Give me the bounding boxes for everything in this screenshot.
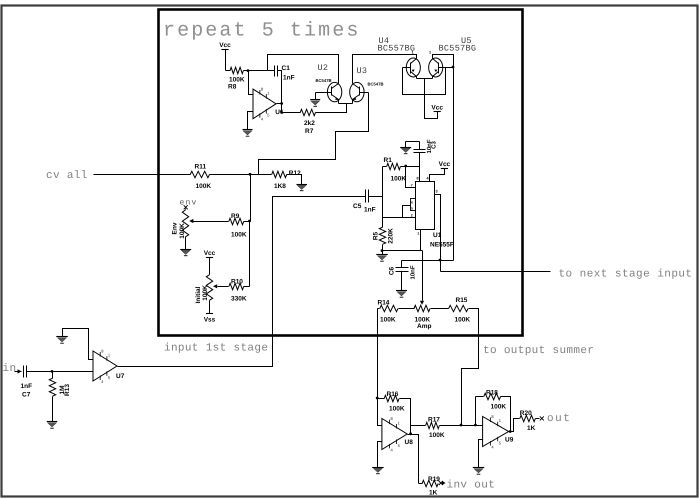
wire U6 output	[277, 104, 301, 113]
wire Vcc to Initial pot	[209, 258, 211, 275]
svg-text:100K: 100K	[455, 317, 471, 324]
svg-text:5: 5	[499, 440, 502, 445]
pot Amp wiper arrow	[420, 301, 424, 305]
svg-text:6: 6	[411, 201, 413, 205]
wire R14 rail down to U8	[378, 309, 382, 426]
node R8/C1 junction	[247, 69, 250, 72]
node U5 base junction	[452, 66, 455, 69]
svg-text:R16: R16	[387, 391, 399, 398]
svg-text:220K: 220K	[388, 228, 395, 244]
svg-text:100K: 100K	[380, 317, 396, 324]
node C1/output junction	[280, 102, 283, 105]
transistor U5	[429, 58, 443, 77]
svg-text:R14: R14	[378, 300, 390, 307]
svg-text:1: 1	[417, 232, 419, 236]
node R18/output	[509, 430, 512, 433]
inv out port	[439, 481, 443, 485]
ground (U6 input)	[243, 130, 253, 137]
svg-text:1K: 1K	[429, 490, 438, 497]
node R18/input	[474, 424, 477, 427]
capacitor C5	[365, 190, 367, 203]
capacitor C7	[23, 366, 25, 378]
wire out node row	[402, 260, 454, 262]
svg-text:8: 8	[417, 177, 419, 181]
svg-text:R8: R8	[228, 84, 237, 91]
wire Vcc to RST pin	[430, 169, 445, 182]
transistor U4	[406, 58, 420, 77]
svg-text:inv out: inv out	[447, 480, 496, 492]
wire TRI pin to rail	[383, 217, 416, 219]
wire C1 right to output	[278, 71, 282, 104]
resistor R20	[520, 415, 536, 421]
svg-text:R9: R9	[231, 213, 240, 220]
svg-text:R13: R13	[64, 384, 71, 396]
wire U3 base to cv node	[259, 93, 369, 175]
svg-text:U2: U2	[318, 63, 329, 73]
svg-text:Env: Env	[172, 222, 179, 234]
svg-text:100K: 100K	[196, 183, 212, 190]
resistor R14	[378, 308, 380, 310]
power Vcc (U4 U5)	[431, 104, 443, 111]
wire C7 to U7	[27, 371, 94, 373]
power Vss	[204, 314, 216, 324]
ground (U7 +input)	[56, 337, 68, 344]
node out/C6	[439, 259, 442, 262]
potentiometer Initial	[206, 275, 212, 301]
svg-text:U9: U9	[505, 437, 514, 444]
resistor R9	[229, 218, 244, 224]
wire node to pin8 rail	[406, 166, 420, 168]
wire emitters to Vcc	[417, 78, 433, 80]
svg-text:100K: 100K	[491, 404, 507, 411]
wire U8 -input ground	[378, 442, 382, 468]
svg-text:C5: C5	[353, 203, 362, 210]
node R1 right	[404, 165, 407, 168]
svg-text:repeat 5 times: repeat 5 times	[163, 20, 360, 43]
svg-text:2k2: 2k2	[304, 120, 315, 127]
ground (C3)	[406, 141, 420, 143]
svg-text:R10: R10	[231, 279, 243, 286]
wire U9 output	[509, 419, 520, 432]
svg-text:BC557BG: BC557BG	[439, 44, 477, 54]
wire R11 to R12	[210, 174, 272, 176]
svg-text:cv all: cv all	[46, 170, 88, 182]
svg-text:C3: C3	[431, 141, 438, 149]
resistor R12	[272, 171, 287, 177]
svg-text:5: 5	[108, 375, 111, 380]
svg-text:330K: 330K	[231, 296, 247, 303]
svg-text:100K: 100K	[179, 223, 186, 239]
op-amp U9	[483, 417, 509, 447]
ground arrow (U2 base)	[315, 93, 317, 100]
wire left vertical rail x382	[382, 167, 384, 228]
resistor R7	[300, 109, 315, 115]
svg-text:out: out	[547, 413, 571, 425]
wire Initial to Vss	[209, 301, 211, 314]
resistor R15	[431, 308, 449, 310]
pot Env wiper arrow	[189, 219, 193, 223]
resistor R1	[383, 166, 387, 168]
svg-text:100K: 100K	[229, 77, 245, 84]
svg-text:R17: R17	[428, 417, 440, 424]
wire emitters join	[339, 103, 353, 105]
wire cv all to R11	[94, 174, 191, 176]
svg-text:R18: R18	[486, 390, 498, 397]
svg-text:BC547B: BC547B	[368, 82, 384, 87]
svg-text:1: 1	[398, 420, 401, 425]
svg-text:Vcc: Vcc	[431, 104, 443, 111]
svg-text:NE555P: NE555P	[430, 242, 455, 249]
svg-text:1: 1	[267, 90, 270, 95]
wire R10 to rail	[244, 286, 250, 288]
wire R15 to summer drop	[462, 309, 479, 426]
capacitor C6	[401, 261, 403, 268]
svg-text:100K: 100K	[429, 432, 445, 439]
resistor R8	[230, 67, 243, 73]
wire U5 collector top to right rail	[433, 55, 454, 261]
potentiometer Env top terminal	[184, 205, 188, 209]
node R16 tap	[376, 397, 379, 400]
wire node down to U6 inverting input	[249, 71, 254, 95]
svg-text:U7: U7	[116, 373, 125, 380]
node cv junction	[249, 173, 252, 176]
wire Vcc to R8	[225, 50, 227, 71]
wire Env to ground	[185, 237, 187, 250]
out port	[540, 416, 544, 420]
svg-text:R7: R7	[305, 128, 314, 135]
node summer join	[460, 424, 463, 427]
wire R12 to ground	[287, 175, 302, 185]
op-amp U6	[253, 89, 276, 119]
svg-text:Vcc: Vcc	[204, 250, 216, 257]
svg-text:2: 2	[411, 213, 413, 217]
node C7/R13	[51, 370, 54, 373]
svg-text:7: 7	[411, 184, 413, 188]
wire pin8 stub	[419, 167, 421, 182]
svg-text:4: 4	[491, 445, 494, 450]
ground (C6)	[396, 291, 407, 298]
svg-text:10nF: 10nF	[410, 265, 417, 279]
wire cv rail down	[250, 175, 252, 222]
power Vcc (555)	[439, 161, 451, 169]
svg-text:BC557BG: BC557BG	[378, 44, 416, 54]
svg-text:to next stage input: to next stage input	[559, 268, 693, 280]
svg-text:Vcc: Vcc	[439, 161, 451, 168]
ground (R12)	[296, 185, 307, 191]
power Vcc (Initial)	[204, 250, 216, 257]
wire U6 noninverting input to ground	[248, 112, 254, 130]
op-amp U8	[382, 419, 407, 450]
svg-text:Amp: Amp	[417, 323, 431, 330]
555 left pin box	[411, 199, 416, 211]
capacitor C1	[274, 66, 276, 77]
wire GND pin run	[383, 250, 423, 252]
resistor R18	[476, 396, 484, 398]
repeat-5-times box	[159, 10, 523, 336]
svg-text:1: 1	[429, 51, 431, 55]
svg-text:5: 5	[267, 113, 270, 118]
svg-text:Vss: Vss	[204, 316, 216, 323]
svg-text:100K: 100K	[389, 406, 405, 413]
svg-text:8: 8	[491, 414, 494, 419]
wire U3 collector up	[353, 55, 417, 84]
node R5 bottom	[381, 249, 384, 252]
svg-text:3: 3	[436, 190, 438, 194]
svg-text:U3: U3	[357, 66, 368, 76]
resistor R10	[229, 283, 244, 289]
ground (Env)	[180, 250, 191, 256]
svg-text:5: 5	[398, 443, 401, 448]
input port arrow	[15, 371, 22, 373]
svg-text:1K8: 1K8	[274, 183, 286, 190]
svg-text:R11: R11	[195, 164, 207, 171]
resistor R5	[379, 227, 385, 244]
wire R18 left down	[475, 397, 477, 426]
potentiometer Env	[182, 210, 188, 237]
wire U7 output to C5 line	[118, 197, 366, 367]
svg-text:C6: C6	[389, 266, 396, 275]
wire ground to U7 input	[63, 329, 94, 360]
svg-text:8: 8	[391, 416, 394, 421]
svg-text:U8: U8	[405, 439, 414, 446]
wire R7 to emitters	[316, 104, 347, 113]
op-amp U7	[93, 351, 117, 381]
svg-text:1: 1	[108, 353, 111, 358]
svg-text:Initial: Initial	[195, 286, 202, 303]
svg-text:1nF: 1nF	[21, 383, 33, 390]
node R16/output	[409, 432, 412, 435]
power Vcc (R8)	[219, 42, 231, 50]
potentiometer Amp	[414, 305, 430, 311]
resistor R19	[419, 483, 423, 485]
svg-text:8: 8	[101, 348, 104, 353]
resistor R11	[190, 171, 209, 177]
svg-text:C1: C1	[282, 65, 291, 72]
svg-text:R12: R12	[289, 170, 301, 177]
wire Amp wiper up	[422, 251, 424, 301]
svg-text:4: 4	[261, 117, 264, 122]
svg-text:R15: R15	[456, 297, 468, 304]
svg-text:in: in	[3, 363, 17, 375]
svg-text:R1: R1	[384, 157, 393, 164]
svg-text:100K: 100K	[231, 232, 247, 239]
wire R9 to rail	[244, 221, 250, 223]
svg-text:4: 4	[101, 379, 104, 384]
svg-text:1: 1	[499, 418, 502, 423]
wire node down to DIS pin	[406, 167, 416, 188]
wire U9 -input ground	[479, 440, 483, 468]
wire U4 emitter top	[416, 55, 418, 59]
svg-text:R19: R19	[428, 476, 440, 483]
pot Initial wiper arrow	[213, 284, 217, 288]
ground (R13)	[47, 422, 58, 429]
svg-text:1nF: 1nF	[283, 75, 295, 82]
svg-text:to output summer: to output summer	[483, 345, 594, 357]
node R9 rail	[248, 220, 251, 223]
ground (R5)	[376, 255, 388, 262]
svg-text:100K: 100K	[391, 176, 407, 183]
svg-text:input 1st stage: input 1st stage	[164, 343, 268, 355]
ground (U8)	[372, 468, 384, 474]
svg-text:1: 1	[412, 51, 414, 55]
wire U8 output	[408, 435, 419, 484]
resistor R17	[411, 425, 426, 427]
wire THR/CON to rail	[383, 206, 411, 218]
svg-text:BC547B: BC547B	[316, 78, 332, 83]
wire OUT pin	[435, 195, 441, 272]
svg-text:R20: R20	[520, 410, 532, 417]
ground (U9)	[473, 468, 485, 475]
svg-text:C7: C7	[22, 392, 31, 399]
svg-text:Vcc: Vcc	[219, 42, 231, 49]
svg-text:1K: 1K	[527, 425, 536, 432]
transistor U2	[327, 82, 341, 101]
svg-text:8: 8	[261, 86, 264, 91]
wire to next stage	[441, 271, 551, 273]
wire feedback top branch	[268, 55, 339, 84]
resistor R16	[378, 398, 385, 400]
555 timer U1 body	[416, 182, 435, 230]
svg-text:4: 4	[391, 447, 394, 452]
wire U4/U5 bases tie	[403, 68, 446, 95]
svg-text:env: env	[180, 199, 198, 208]
svg-text:100K: 100K	[202, 285, 209, 301]
svg-text:R5: R5	[373, 231, 380, 240]
capacitor C3	[414, 149, 426, 151]
transistor U3	[350, 82, 364, 101]
svg-text:1nF: 1nF	[364, 207, 376, 214]
wire node to C1	[249, 70, 275, 72]
svg-text:5: 5	[411, 206, 413, 210]
resistor R13	[52, 372, 54, 379]
